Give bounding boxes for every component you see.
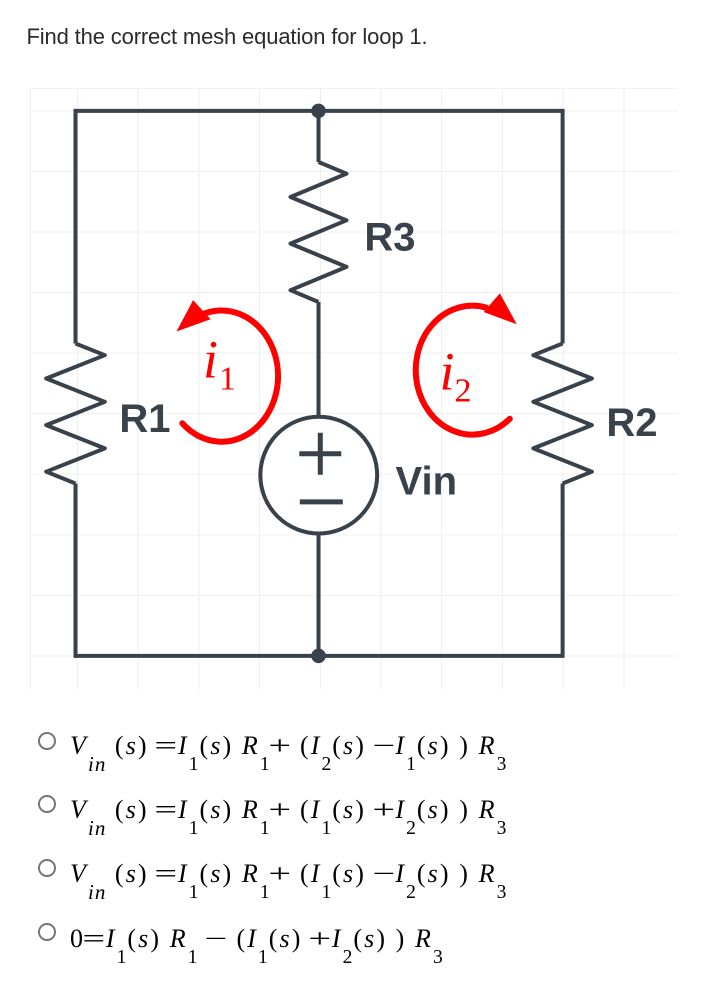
minus sign: [300, 499, 343, 504]
svg-text:R1: R1: [119, 397, 170, 441]
svg-text:i: i: [203, 330, 218, 390]
resistor R1: [46, 344, 105, 484]
option 3 equation: [70, 859, 507, 889]
svg-text:Vin: Vin: [396, 460, 458, 504]
voltage source Vin circle: [260, 417, 377, 534]
option 1 radio: [38, 732, 56, 750]
svg-text:i: i: [440, 342, 455, 402]
title: [27, 24, 428, 50]
option 4 equation: [70, 924, 444, 954]
resistor R3: [291, 162, 347, 302]
option 2 radio: [38, 795, 56, 813]
wire bottom rail: [76, 654, 563, 658]
junction node bottom: [311, 649, 326, 664]
option 2 equation: [70, 795, 507, 825]
svg-text:R3: R3: [364, 215, 415, 259]
plus sign: [299, 433, 341, 475]
option 3 radio: [38, 859, 56, 877]
svg-text:2: 2: [455, 372, 472, 409]
mesh current arrow i1 (counterclockwise arc): [182, 310, 278, 441]
wire middle to source: [317, 302, 321, 415]
wire middle top: [317, 111, 321, 162]
wire middle bottom: [317, 535, 321, 656]
arrowhead i2: [484, 293, 517, 324]
option 4 radio: [38, 923, 56, 941]
wire right rail upper: [561, 109, 565, 344]
option 1 equation: [70, 731, 507, 761]
junction node top: [311, 104, 326, 119]
wire left rail lower: [74, 484, 78, 658]
mesh current arrow i2 (clockwise arc): [416, 306, 510, 435]
svg-text:R2: R2: [606, 401, 657, 445]
arrowhead i1: [177, 300, 211, 331]
svg-text:1: 1: [219, 360, 236, 397]
circuit schematic svg: [30, 88, 678, 689]
resistor R2: [533, 344, 592, 484]
wire right rail lower: [561, 484, 565, 658]
wire left rail upper: [74, 109, 78, 344]
wire top rail: [76, 109, 563, 113]
